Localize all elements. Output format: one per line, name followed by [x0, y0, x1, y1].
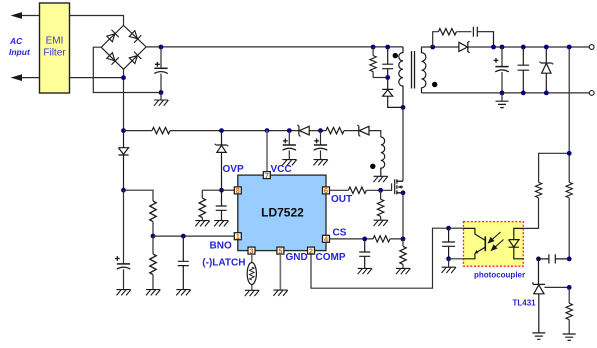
ground bulk cap	[160, 93, 162, 100]
resistor VCC rail left	[152, 127, 170, 133]
ground VCC cap1	[282, 160, 296, 166]
capacitor start-up electrolytic	[123, 190, 125, 289]
capacitor BNO filter	[178, 236, 189, 289]
transformer aux winding	[381, 137, 385, 176]
transistor photocoupler output	[464, 228, 486, 258]
node clamp cap top	[385, 45, 390, 50]
zener output ZD	[541, 47, 552, 93]
ground gate pulldown	[374, 220, 388, 226]
svg-text:6: 6	[324, 186, 328, 195]
node photocoupler emitter	[446, 256, 451, 261]
zener OVP	[216, 131, 227, 191]
node start-up rail left	[121, 128, 126, 133]
svg-text:AC: AC	[9, 36, 23, 46]
node BNO divider	[151, 234, 156, 239]
capacitor output ceramic	[518, 47, 530, 93]
svg-text:2: 2	[309, 246, 313, 255]
ground latch	[245, 290, 259, 296]
transformer aux polarity dot	[370, 164, 375, 169]
node ceramic cap bottom	[521, 91, 526, 96]
node feedback top join	[567, 151, 572, 156]
svg-text:Filter: Filter	[43, 48, 66, 59]
photocoupler light arrows	[489, 232, 504, 250]
node output cap top	[500, 45, 505, 50]
bridge diode D2 (top-right)	[128, 30, 141, 43]
ground divider	[563, 334, 576, 340]
capacitor bulk electrolytic C1	[160, 47, 162, 93]
wire bridge bottom vertex down to start-up rail	[123, 69, 125, 130]
wire photocoupler collector	[449, 227, 464, 229]
pin 4 CS	[323, 235, 330, 244]
ground aux winding	[374, 176, 388, 182]
svg-text:OVP: OVP	[223, 164, 244, 175]
wire main HV rail	[146, 46, 403, 48]
node OVP tap	[219, 128, 224, 133]
wire EMI bottom output to bridge bottom node	[70, 77, 124, 79]
node gate	[378, 188, 383, 193]
node MOSFET source	[401, 190, 406, 195]
resistor clamp R	[372, 47, 374, 78]
wire OUT pin to gate resistor	[330, 183, 392, 190]
node bridge bottom / AC neutral	[121, 75, 126, 80]
transformer T1 primary winding	[399, 47, 403, 108]
resistor CS series	[373, 236, 390, 242]
wire MOSFET drain to primary	[402, 107, 404, 181]
wire BNO to pin 1	[153, 235, 234, 237]
diode photocoupler LED	[509, 228, 524, 258]
svg-text:LD7522: LD7522	[261, 206, 304, 220]
resistor photocoupler bias	[535, 182, 541, 197]
terminal output +	[589, 45, 594, 50]
capacitor COMP filter	[442, 228, 455, 259]
capacitor VCC electrolytic C3	[320, 131, 322, 160]
wire MOSFET source to CS	[402, 193, 404, 239]
pin 3 LATCH	[248, 246, 255, 255]
node secondary snubber left	[430, 45, 435, 50]
resistor BNO upper	[150, 201, 156, 222]
photocoupler U2 box	[464, 222, 524, 267]
wire secondary top rail	[422, 46, 590, 48]
node output zener top	[544, 45, 549, 50]
node divider tap cap	[567, 257, 572, 262]
wire VCC rail	[124, 131, 381, 137]
node LED cathode	[536, 257, 541, 262]
wire feedback sense drop	[568, 47, 570, 182]
capacitor secondary snubber	[473, 27, 493, 47]
ground BNO cap	[176, 290, 190, 296]
wire clamp RC join	[373, 77, 388, 79]
wire CS pin	[330, 238, 404, 240]
node start-up divider top	[121, 188, 126, 193]
capacitor TL431 comp	[539, 254, 570, 263]
node CS sense	[401, 237, 406, 242]
node ceramic cap top	[521, 45, 526, 50]
node divider mid	[567, 285, 572, 290]
wire AC input bottom arrow	[11, 74, 23, 81]
wire secondary bottom rail	[422, 92, 590, 94]
bridge rectifier diamond	[101, 25, 146, 69]
node feedback tap on top rail	[567, 45, 572, 50]
svg-text:8: 8	[236, 186, 240, 195]
svg-text:BNO: BNO	[210, 241, 232, 252]
ground VCC cap2	[314, 160, 328, 166]
node CS filter	[362, 237, 367, 242]
wire start-up node to divider	[124, 190, 154, 201]
node VCC pin tap	[265, 128, 270, 133]
wire COMP to photocoupler	[311, 228, 449, 288]
wire pin7 VCC stub	[266, 131, 268, 172]
svg-text:GND: GND	[286, 252, 308, 263]
svg-text:5: 5	[278, 246, 282, 255]
node clamp to drain	[401, 105, 406, 110]
resistor secondary snubber	[433, 32, 472, 47]
resistor feedback lower divider	[568, 287, 570, 333]
op-amp/controller IC U1 LD7522	[238, 175, 326, 251]
resistor feedback upper divider	[566, 182, 572, 197]
ground CS filter cap	[358, 268, 372, 274]
bridge diode D4 (bottom-right)	[128, 52, 141, 65]
diode aux rectifier	[359, 126, 369, 135]
capacitor CS filter	[359, 239, 370, 268]
ground OVP cap	[214, 221, 228, 227]
resistor VCC rail right	[326, 127, 344, 133]
node VCC cap1 top	[287, 128, 292, 133]
svg-text:OUT: OUT	[331, 194, 352, 205]
svg-text:CS: CS	[333, 227, 347, 238]
resistor OVP to ground	[201, 190, 203, 220]
capacitor OVP filter	[216, 190, 227, 220]
node VCC cap2 top	[318, 128, 323, 133]
node clamp join	[385, 75, 390, 80]
svg-text:VCC: VCC	[271, 164, 292, 175]
svg-text:7: 7	[265, 171, 269, 180]
svg-text:TL431: TL431	[513, 299, 537, 308]
node OVP pin junction	[219, 188, 224, 193]
pin 1 BNO	[234, 232, 241, 241]
transformer core	[412, 51, 415, 89]
pin 5 GND	[277, 246, 284, 255]
wire EMI top output to bridge top vertex	[70, 16, 124, 26]
ground BNO lower resistor	[146, 290, 160, 296]
bridge diode D3 (bottom-left)	[106, 52, 119, 65]
node snubber right on rail	[491, 45, 496, 50]
svg-text:1: 1	[236, 232, 240, 241]
resistor gate pulldown	[380, 190, 382, 220]
wire AC input top arrow	[11, 12, 23, 19]
pin 2 COMP	[308, 246, 315, 255]
ground CS sense resistor	[396, 268, 410, 274]
pin 6 OUT	[323, 186, 330, 195]
shunt regulator TL431	[533, 259, 545, 333]
wire bridge left vertex to ground line	[93, 47, 161, 92]
wire emitter to ground	[449, 259, 464, 267]
svg-text:3: 3	[249, 246, 253, 255]
transformer secondary winding	[422, 47, 426, 93]
ground GND pin	[273, 290, 287, 296]
ground TL431	[532, 333, 545, 339]
svg-text:(-)LATCH: (-)LATCH	[202, 258, 245, 269]
ground secondary output	[501, 93, 503, 101]
wire LED anode to upper resistor	[523, 198, 538, 228]
AC input label	[9, 36, 31, 57]
node output cap bottom	[500, 91, 505, 96]
capacitor output electrolytic	[501, 47, 503, 93]
node bulk cap bottom	[159, 90, 164, 95]
ground photocoupler emitter	[442, 267, 456, 273]
diode start-up (below bridge)	[118, 131, 128, 191]
thermistor latch (ellipse)	[251, 254, 253, 290]
wire OVP node to RC	[202, 189, 221, 191]
ground OVP resistor	[195, 221, 209, 227]
capacitor clamp C	[382, 47, 393, 78]
node clamp resistor top	[371, 45, 376, 50]
resistor BNO lower	[152, 236, 154, 289]
node COMP photocoupler top	[446, 226, 451, 231]
wire OVP node to pin 8	[222, 189, 235, 191]
diode clamp D	[382, 78, 403, 108]
node BNO cap tap	[181, 234, 186, 239]
svg-text:Input: Input	[9, 47, 31, 57]
pin labels	[202, 164, 352, 269]
wire TL431 ref to divider	[545, 286, 570, 288]
pin 8 OVP	[234, 186, 241, 195]
wire pin5 GND stub	[279, 254, 281, 290]
terminal output -	[589, 91, 594, 96]
capacitor VCC electrolytic C2	[288, 131, 290, 160]
resistor CS sense to ground	[402, 239, 404, 268]
svg-text:COMP: COMP	[316, 252, 346, 263]
svg-text:EMI: EMI	[46, 36, 64, 47]
svg-text:photocoupler: photocoupler	[474, 271, 525, 280]
diode secondary rectifier (schottky)	[459, 42, 468, 51]
diode VCC zener (on rail)	[299, 126, 309, 135]
pin 7 VCC	[263, 171, 270, 180]
ground start-up cap	[117, 290, 131, 296]
bridge diode D1 (top-left)	[106, 30, 119, 43]
transformer primary polarity dot	[393, 53, 398, 58]
transistor Q1 MOSFET	[395, 179, 403, 194]
transformer secondary polarity dot	[432, 82, 437, 87]
resistor gate	[348, 187, 366, 193]
node bulk cap top	[159, 45, 164, 50]
node zener bottom	[544, 91, 549, 96]
EMI filter block	[40, 3, 70, 93]
